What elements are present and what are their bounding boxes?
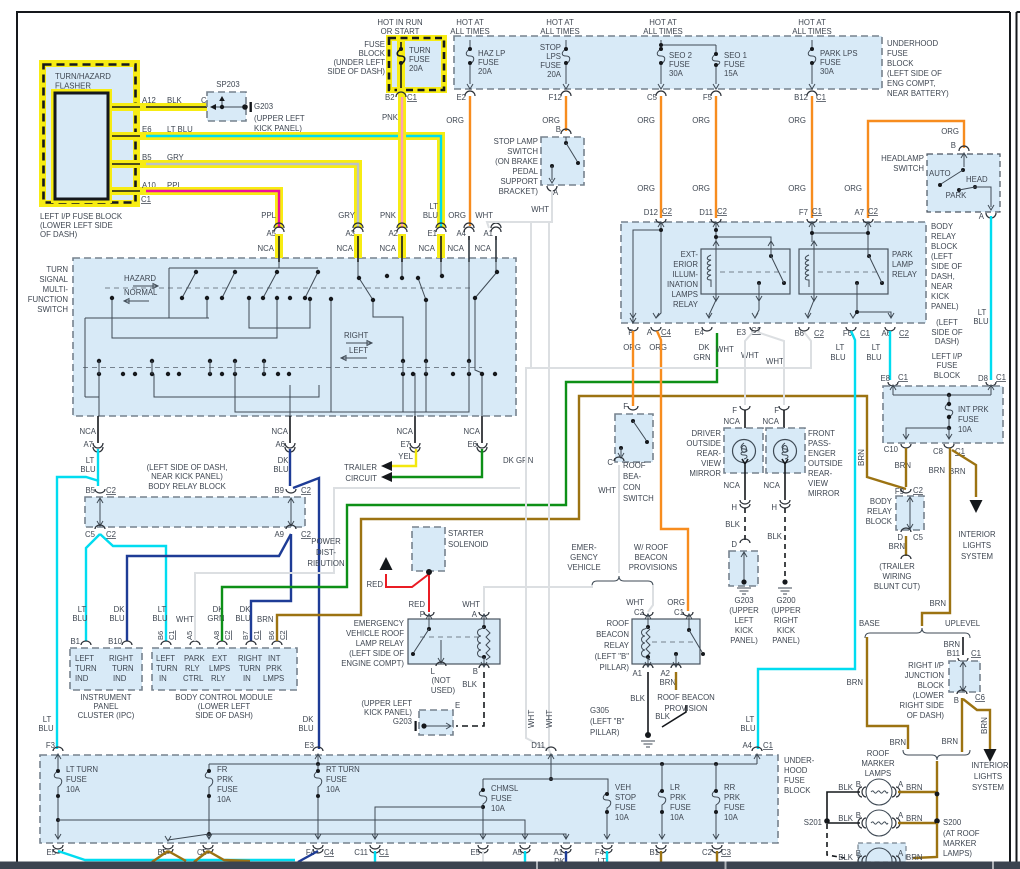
svg-text:ENGER: ENGER (808, 449, 836, 458)
svg-text:JUNCTION: JUNCTION (905, 671, 944, 680)
wire ORG F5 to D11 (715, 96, 717, 218)
roof marker lamp 1 (866, 779, 892, 805)
svg-text:B6: B6 (156, 631, 165, 640)
wire ORG F12 to stop lamp switch B (565, 96, 567, 131)
svg-text:TURN: TURN (46, 265, 68, 274)
svg-text:PRK: PRK (217, 775, 234, 784)
wire BRN C10 to F9 (905, 448, 907, 487)
LR PRK fuse (659, 764, 665, 839)
svg-text:F: F (774, 406, 779, 415)
svg-text:C2: C2 (913, 486, 923, 495)
bottom pins (628, 327, 638, 331)
svg-text:B1: B1 (70, 637, 80, 646)
svg-text:LAMP: LAMP (892, 260, 913, 269)
svg-text:C1: C1 (971, 649, 981, 658)
svg-text:C2: C2 (717, 207, 727, 216)
svg-text:A1: A1 (632, 669, 642, 678)
svg-text:A8: A8 (212, 631, 221, 640)
svg-text:PEDAL: PEDAL (512, 167, 538, 176)
svg-text:PILLAR): PILLAR) (600, 663, 630, 672)
svg-text:(ON BRAKE: (ON BRAKE (495, 157, 538, 166)
svg-text:G203: G203 (254, 102, 273, 111)
svg-text:NCA: NCA (419, 244, 436, 253)
svg-text:C2: C2 (662, 207, 672, 216)
wire BRN C8 to interior lights (952, 450, 976, 497)
svg-text:20A: 20A (478, 67, 493, 76)
left branch to emergency relay A (484, 585, 592, 612)
svg-text:REAR-: REAR- (697, 449, 722, 458)
bottom wire stubs (58, 851, 295, 860)
svg-text:NCA: NCA (258, 244, 275, 253)
svg-text:PARK: PARK (184, 654, 205, 663)
svg-text:BLU: BLU (298, 724, 314, 733)
svg-text:ORG: ORG (448, 211, 466, 220)
svg-text:OF DASH): OF DASH) (40, 230, 78, 239)
svg-text:TRAILER: TRAILER (344, 463, 377, 472)
wire BRN long to B6 (277, 396, 906, 641)
svg-text:DASH): DASH) (935, 337, 960, 346)
svg-text:F12: F12 (549, 93, 562, 102)
svg-text:LT: LT (872, 343, 881, 352)
svg-text:FUSE: FUSE (724, 803, 745, 812)
wire ORG B12 to F7 (811, 96, 813, 218)
svg-text:B: B (856, 849, 861, 858)
wire ORG to headlamp switch B (868, 121, 964, 218)
svg-text:VIEW: VIEW (808, 479, 829, 488)
svg-text:HEAD: HEAD (966, 175, 988, 184)
svg-text:C4: C4 (661, 328, 672, 337)
svg-text:LAMPS: LAMPS (865, 769, 891, 778)
A1 black to G305 ground (647, 672, 649, 733)
svg-text:B7: B7 (241, 631, 250, 640)
svg-text:RIGHT I/P: RIGHT I/P (908, 661, 944, 670)
svg-text:(AT ROOF: (AT ROOF (943, 829, 980, 838)
svg-text:F: F (732, 406, 737, 415)
svg-text:C2: C2 (278, 630, 287, 640)
svg-text:FUSE: FUSE (937, 361, 958, 370)
svg-text:BLK: BLK (655, 712, 671, 721)
svg-text:E2: E2 (456, 93, 466, 102)
svg-text:FUSE: FUSE (784, 776, 805, 785)
svg-text:B6: B6 (794, 329, 804, 338)
svg-text:VEHICLE ROOF: VEHICLE ROOF (346, 629, 404, 638)
wire WHT B6 to D11 net (526, 332, 811, 750)
svg-text:BLOCK: BLOCK (918, 681, 945, 690)
svg-text:S201: S201 (804, 818, 822, 827)
svg-text:ORG: ORG (788, 116, 806, 125)
svg-text:LMPS: LMPS (263, 674, 284, 683)
svg-text:SIDE OF: SIDE OF (931, 328, 962, 337)
svg-text:DK: DK (303, 715, 315, 724)
svg-text:HOT AT: HOT AT (649, 18, 677, 27)
svg-text:S200: S200 (943, 818, 962, 827)
svg-text:A: A (553, 188, 559, 197)
svg-text:FRONT: FRONT (808, 429, 835, 438)
svg-text:RED: RED (409, 600, 426, 609)
svg-text:STOP: STOP (540, 43, 561, 52)
headlamp switch (959, 146, 969, 151)
svg-text:YEL: YEL (398, 452, 413, 461)
svg-text:LEFT I/P FUSE BLOCK: LEFT I/P FUSE BLOCK (40, 212, 123, 221)
svg-text:30A: 30A (820, 67, 835, 76)
svg-text:BRN: BRN (890, 738, 906, 747)
svg-text:E4: E4 (694, 328, 704, 337)
CHMSL fuse (480, 779, 486, 839)
svg-text:NCA: NCA (763, 417, 780, 426)
svg-text:PROVISIONS: PROVISIONS (629, 563, 678, 572)
svg-text:SOLENOID: SOLENOID (448, 540, 489, 549)
svg-text:10A: 10A (615, 813, 630, 822)
body relay block (big) (621, 222, 926, 323)
svg-text:C2: C2 (899, 329, 909, 338)
svg-text:WIRING: WIRING (882, 572, 911, 581)
right I/P junction block (949, 661, 980, 692)
svg-text:BLU: BLU (109, 614, 125, 623)
svg-text:BRN: BRN (857, 449, 866, 466)
svg-text:A1: A1 (553, 848, 563, 857)
svg-text:PRK: PRK (266, 664, 283, 673)
svg-text:OR START: OR START (381, 27, 420, 36)
svg-text:H: H (731, 503, 737, 512)
svg-text:10A: 10A (958, 425, 973, 434)
svg-text:C1: C1 (252, 630, 261, 640)
svg-text:BRN: BRN (895, 461, 911, 470)
svg-text:RELAY: RELAY (931, 232, 957, 241)
svg-text:INTERIOR: INTERIOR (971, 761, 1009, 770)
svg-text:10A: 10A (670, 813, 685, 822)
svg-text:(LEFT: (LEFT (931, 252, 953, 261)
wire WHT E3/C1 fans to mirrors (745, 332, 753, 405)
svg-text:A5: A5 (512, 848, 522, 857)
svg-text:H: H (771, 503, 777, 512)
svg-text:SEO 1: SEO 1 (724, 51, 747, 60)
next page frame edge (1017, 12, 1020, 862)
svg-text:BLU: BLU (740, 724, 756, 733)
svg-text:HAZARD: HAZARD (124, 274, 156, 283)
wire ORG A to roof beacon relay C1 (657, 331, 688, 611)
svg-text:WHT: WHT (545, 710, 554, 728)
svg-text:SIDE OF DASH): SIDE OF DASH) (195, 711, 253, 720)
svg-text:LT: LT (836, 343, 845, 352)
svg-text:UPLEVEL: UPLEVEL (945, 619, 981, 628)
svg-text:BLU: BLU (830, 353, 846, 362)
svg-text:FUSE: FUSE (326, 775, 347, 784)
svg-text:IND: IND (113, 674, 127, 683)
svg-text:(UPPER LEFT: (UPPER LEFT (361, 699, 412, 708)
svg-text:BLU: BLU (423, 211, 439, 220)
svg-text:PASS-: PASS- (808, 439, 831, 448)
svg-text:10A: 10A (66, 785, 81, 794)
relay 1 box (701, 249, 790, 294)
switch box (73, 258, 516, 416)
svg-text:(UNDER LEFT: (UNDER LEFT (333, 58, 385, 67)
svg-text:PARK LPS: PARK LPS (820, 49, 858, 58)
svg-text:NEAR KICK PANEL): NEAR KICK PANEL) (151, 472, 223, 481)
svg-text:SYSTEM: SYSTEM (972, 783, 1004, 792)
svg-text:NCA: NCA (464, 427, 481, 436)
relay1 internals (720, 271, 786, 273)
starter solenoid (412, 527, 445, 571)
svg-text:BLOCK: BLOCK (934, 371, 961, 380)
svg-text:TURN: TURN (239, 664, 261, 673)
svg-text:A4: A4 (456, 229, 466, 238)
svg-text:VIEW: VIEW (701, 459, 722, 468)
svg-text:P: P (420, 610, 425, 619)
svg-text:BRN: BRN (980, 717, 989, 734)
UPLEVEL branch to B11 (962, 637, 964, 655)
svg-text:30A: 30A (669, 69, 684, 78)
svg-text:HOT AT: HOT AT (546, 18, 574, 27)
svg-text:RT TURN: RT TURN (326, 765, 360, 774)
svg-text:10A: 10A (326, 785, 341, 794)
svg-text:E5: E5 (46, 848, 56, 857)
svg-text:C1: C1 (812, 207, 822, 216)
svg-text:B: B (951, 141, 956, 150)
svg-text:BLK: BLK (838, 853, 854, 862)
svg-text:C2: C2 (106, 486, 116, 495)
turn/hazard flasher highlight box (39, 60, 140, 207)
svg-text:BLK: BLK (462, 680, 478, 689)
svg-text:LT: LT (746, 715, 755, 724)
svg-text:PILLAR): PILLAR) (590, 728, 620, 737)
svg-text:LT: LT (86, 456, 95, 465)
svg-text:INT PRK: INT PRK (958, 405, 989, 414)
svg-text:FUNCTION: FUNCTION (28, 295, 68, 304)
svg-text:C1: C1 (141, 195, 151, 204)
yellow stubs into box (275, 234, 283, 258)
svg-text:WHT: WHT (462, 600, 480, 609)
svg-text:20A: 20A (409, 64, 424, 73)
svg-text:ORG: ORG (844, 184, 862, 193)
svg-text:PRK: PRK (724, 793, 741, 802)
svg-text:PARK: PARK (946, 191, 967, 200)
svg-text:BODY: BODY (931, 222, 954, 231)
svg-text:B: B (856, 780, 861, 789)
svg-text:CHMSL: CHMSL (491, 784, 519, 793)
svg-text:G200: G200 (776, 596, 796, 605)
svg-text:SIDE OF: SIDE OF (931, 262, 962, 271)
svg-text:BODY RELAY BLOCK: BODY RELAY BLOCK (148, 482, 226, 491)
LT TURN fuse (55, 764, 61, 839)
svg-text:SIDE OF DASH): SIDE OF DASH) (327, 67, 385, 76)
bottom row contacts (97, 359, 497, 376)
svg-text:UNDER-: UNDER- (784, 756, 815, 765)
svg-text:A7: A7 (83, 440, 93, 449)
svg-text:LT TURN: LT TURN (66, 765, 98, 774)
svg-text:ILLUM-: ILLUM- (672, 270, 698, 279)
svg-text:(LEFT SIDE OF: (LEFT SIDE OF (887, 69, 942, 78)
svg-text:OUTSIDE: OUTSIDE (808, 459, 843, 468)
svg-text:LPS: LPS (546, 52, 561, 61)
svg-text:DIST-: DIST- (316, 548, 336, 557)
A2 brown provision (675, 672, 677, 690)
wire LT BLU F6 long run to A4 (758, 331, 855, 749)
svg-text:BLK: BLK (838, 783, 854, 792)
svg-text:NCA: NCA (475, 244, 492, 253)
svg-text:ORG: ORG (446, 116, 464, 125)
svg-text:10A: 10A (491, 804, 506, 813)
svg-text:TURN/HAZARD: TURN/HAZARD (55, 72, 111, 81)
svg-text:C2: C2 (301, 530, 311, 539)
relay 2 box (799, 249, 888, 294)
svg-text:FUSE: FUSE (364, 40, 385, 49)
svg-text:ROOF: ROOF (606, 619, 629, 628)
svg-text:MARKER: MARKER (861, 759, 895, 768)
svg-text:INT: INT (268, 654, 281, 663)
svg-text:LEFT: LEFT (349, 346, 368, 355)
svg-text:MULTI-: MULTI- (43, 285, 69, 294)
svg-text:(NOT: (NOT (431, 676, 450, 685)
svg-text:(LOWER LEFT SIDE: (LOWER LEFT SIDE (40, 221, 113, 230)
svg-text:BRN: BRN (257, 615, 273, 624)
svg-text:BLUNT CUT): BLUNT CUT) (874, 582, 921, 591)
svg-text:OUTSIDE: OUTSIDE (686, 439, 721, 448)
svg-text:FUSE: FUSE (478, 58, 499, 67)
svg-text:C4: C4 (324, 848, 335, 857)
svg-text:A: A (898, 811, 904, 820)
svg-text:INTERIOR: INTERIOR (958, 530, 996, 539)
roof marker lamp 2 (866, 810, 892, 836)
svg-text:EXT-: EXT- (681, 250, 699, 259)
VEH STOP fuse (604, 813, 610, 839)
svg-text:E3: E3 (736, 328, 746, 337)
svg-text:ERIOR: ERIOR (673, 260, 698, 269)
svg-text:CON: CON (623, 483, 640, 492)
svg-text:D11: D11 (699, 208, 713, 217)
svg-text:ORG: ORG (667, 598, 685, 607)
svg-text:ENGINE COMPT): ENGINE COMPT) (341, 659, 404, 668)
svg-text:G203: G203 (393, 717, 412, 726)
RR PRK fuse (713, 764, 719, 839)
svg-text:C2: C2 (702, 848, 712, 857)
svg-text:NCA: NCA (337, 244, 354, 253)
svg-text:A7: A7 (854, 208, 864, 217)
svg-text:CLUSTER (IPC): CLUSTER (IPC) (78, 711, 135, 720)
svg-text:BLU: BLU (866, 353, 882, 362)
svg-text:C5: C5 (913, 533, 924, 542)
svg-text:BRN: BRN (942, 737, 958, 746)
svg-text:FUSE: FUSE (670, 803, 691, 812)
svg-text:GRN: GRN (693, 353, 710, 362)
svg-text:C2: C2 (301, 486, 311, 495)
wire ORG C5 to D12 (660, 96, 662, 218)
svg-text:TURN: TURN (156, 664, 178, 673)
svg-text:BRN: BRN (660, 678, 676, 687)
svg-text:BEACON: BEACON (596, 630, 629, 639)
svg-text:FUSE: FUSE (669, 60, 690, 69)
svg-text:F7: F7 (799, 208, 808, 217)
svg-text:PANEL: PANEL (94, 702, 120, 711)
svg-text:A: A (979, 212, 985, 221)
svg-text:PPL: PPL (261, 211, 276, 220)
svg-text:E8: E8 (880, 374, 890, 383)
svg-text:B1: B1 (649, 848, 659, 857)
svg-text:FR: FR (217, 765, 228, 774)
svg-text:C1: C1 (816, 93, 826, 102)
svg-text:INSTRUMENT: INSTRUMENT (80, 693, 131, 702)
svg-text:BRN: BRN (906, 783, 922, 792)
gray D11 converge (549, 750, 551, 755)
svg-text:SWITCH: SWITCH (893, 164, 924, 173)
svg-text:RR: RR (724, 783, 736, 792)
svg-text:D8: D8 (978, 374, 988, 383)
svg-text:WHT: WHT (527, 710, 536, 728)
svg-text:B11: B11 (947, 649, 960, 658)
svg-text:E1: E1 (427, 229, 437, 238)
svg-text:RIGHT SIDE: RIGHT SIDE (900, 701, 944, 710)
svg-text:PARK: PARK (892, 250, 913, 259)
wire LT BLU A6 to E8 (889, 331, 891, 380)
turn fuse highlight box (386, 35, 447, 93)
svg-text:C3: C3 (721, 848, 731, 857)
svg-text:C2: C2 (868, 207, 878, 216)
svg-text:UNDERHOOD: UNDERHOOD (887, 39, 938, 48)
svg-text:RIGHT: RIGHT (109, 654, 133, 663)
svg-text:FUSE: FUSE (217, 785, 238, 794)
svg-text:B2: B2 (385, 93, 395, 102)
svg-text:BLOCK: BLOCK (784, 786, 811, 795)
svg-text:W/ ROOF: W/ ROOF (634, 543, 668, 552)
svg-text:C1: C1 (898, 373, 908, 382)
svg-text:SUPPORT: SUPPORT (500, 177, 538, 186)
svg-text:NCA: NCA (380, 244, 397, 253)
svg-text:TURN: TURN (409, 46, 431, 55)
svg-text:BEACON: BEACON (635, 553, 668, 562)
svg-text:A: A (472, 610, 478, 619)
svg-text:(UPPER: (UPPER (729, 606, 759, 615)
wire B5 GRY (146, 164, 358, 228)
svg-text:DK GRN: DK GRN (503, 456, 533, 465)
svg-text:WHT: WHT (716, 345, 734, 354)
svg-text:C1: C1 (379, 848, 389, 857)
svg-text:BRN: BRN (906, 814, 922, 823)
svg-text:FUSE: FUSE (491, 794, 512, 803)
svg-text:RLY: RLY (211, 674, 226, 683)
svg-text:LAMPS: LAMPS (672, 290, 698, 299)
svg-text:B6: B6 (267, 631, 276, 640)
svg-text:DK: DK (240, 605, 252, 614)
svg-text:NEAR BATTERY): NEAR BATTERY) (887, 89, 949, 98)
svg-text:LR: LR (670, 783, 680, 792)
svg-text:LAMP RELAY: LAMP RELAY (356, 639, 405, 648)
svg-text:MIRROR: MIRROR (689, 469, 721, 478)
svg-text:NCA: NCA (272, 427, 289, 436)
svg-text:LAMPS): LAMPS) (943, 849, 972, 858)
svg-text:RLY: RLY (185, 664, 200, 673)
wire WHT stop lamp A to mf A1 (487, 190, 552, 228)
svg-text:BLK: BLK (725, 520, 741, 529)
svg-text:ORG: ORG (637, 184, 655, 193)
underhood fuse block bottom (40, 755, 778, 843)
svg-text:ORG: ORG (542, 116, 560, 125)
svg-text:ORG: ORG (788, 184, 806, 193)
connectors at A5 A3 A2 E1 (274, 223, 284, 232)
underhood fuse block top (454, 36, 882, 89)
B black dashed to G203 (E) (456, 672, 484, 726)
svg-text:B: B (473, 667, 478, 676)
svg-text:FUSE: FUSE (540, 61, 561, 70)
svg-text:NEAR: NEAR (931, 282, 953, 291)
FR PRK fuse (208, 764, 210, 834)
svg-text:KICK PANEL): KICK PANEL) (254, 124, 302, 133)
svg-text:ENG COMPT,: ENG COMPT, (887, 79, 936, 88)
svg-text:B10: B10 (108, 637, 123, 646)
svg-text:FUSE: FUSE (887, 49, 908, 58)
svg-text:NCA: NCA (397, 427, 414, 436)
svg-text:BRN: BRN (949, 467, 965, 476)
svg-text:ALL TIMES: ALL TIMES (643, 27, 682, 36)
svg-text:VEH: VEH (615, 783, 631, 792)
